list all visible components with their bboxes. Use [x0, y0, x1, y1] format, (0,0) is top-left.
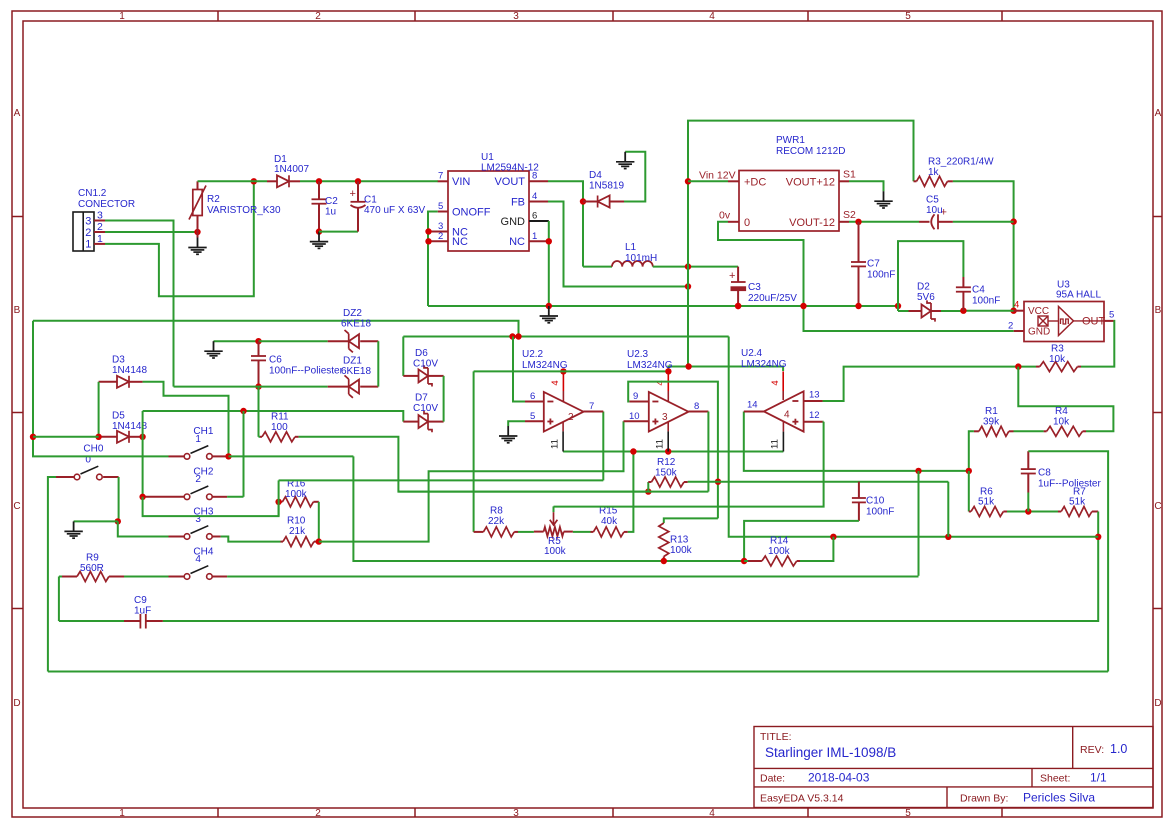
U2.3 pin 8 output stub — [689, 401, 709, 412]
wire C5 to R3 node — [953, 221, 1014, 223]
svg-text:EasyEDA V5.3.14: EasyEDA V5.3.14 — [760, 793, 844, 805]
wire CH1 to R13/R14 node — [353, 456, 744, 561]
op-amp U2.4 LM324NG — [741, 348, 804, 432]
junction — [425, 228, 431, 234]
wire R11 to U2.3 out net — [299, 437, 649, 492]
resistor R7 51k — [1058, 487, 1098, 517]
capacitor C1 — [350, 181, 426, 231]
diode D5 1N4148 — [99, 411, 148, 443]
wire U2.2 out to R16 — [279, 479, 604, 481]
svg-text:REV:: REV: — [1080, 744, 1104, 756]
PWR1 pin +DC stub — [728, 180, 739, 182]
svg-text:3: 3 — [513, 11, 519, 22]
wire R7 to C9 node — [1097, 512, 1099, 537]
svg-text:C: C — [1154, 501, 1161, 512]
op-amp U2.2 LM324NG — [522, 349, 584, 432]
U2.4 pin 11 V- — [770, 422, 784, 452]
switch CH4 — [169, 546, 228, 579]
svg-text:R3_220R1/4W: R3_220R1/4W — [928, 157, 994, 168]
svg-text:D5: D5 — [112, 411, 125, 422]
wire CH1 right run — [229, 455, 354, 457]
svg-text:Starlinger IML-1098/B: Starlinger IML-1098/B — [765, 745, 896, 760]
svg-text:Vin 12V: Vin 12V — [699, 170, 736, 182]
svg-text:C10V: C10V — [413, 359, 438, 370]
svg-text:D2: D2 — [917, 282, 930, 293]
svg-text:2: 2 — [315, 11, 321, 22]
resistor R9 560R — [59, 553, 124, 582]
svg-text:L1: L1 — [625, 242, 637, 253]
svg-text:S1: S1 — [843, 169, 856, 181]
wire node to R6 — [968, 471, 970, 512]
wire R5 wiper to U2.4 pin12 — [554, 422, 824, 507]
switch CH3 — [169, 506, 221, 539]
wire CH0 right down — [118, 477, 120, 521]
wire DZ2 to DZ1 — [377, 341, 379, 386]
svg-text:100nF: 100nF — [867, 270, 895, 281]
svg-text:2: 2 — [97, 221, 103, 233]
svg-text:0: 0 — [744, 217, 750, 229]
svg-text:D6: D6 — [415, 348, 428, 359]
varistor R2 — [189, 181, 281, 237]
resistor R3_220R1/4W 1k — [914, 157, 995, 187]
junction — [715, 479, 721, 485]
svg-text:C6: C6 — [269, 355, 282, 366]
junction — [316, 538, 322, 544]
svg-text:95A HALL: 95A HALL — [1056, 290, 1101, 301]
svg-text:CN1.2: CN1.2 — [78, 188, 107, 199]
svg-text:100k: 100k — [544, 546, 567, 557]
junction — [240, 408, 246, 414]
wire V+ rail jog to U2.4 pin4 — [668, 367, 783, 372]
wire up to U2.2 output — [602, 412, 604, 481]
svg-text:VARISTOR_K30: VARISTOR_K30 — [207, 205, 281, 216]
wire U1 GND down — [548, 221, 550, 306]
svg-text:10u: 10u — [926, 205, 943, 216]
ground symbol at U1 — [548, 306, 550, 316]
power module PWR1 RECOM 1212D — [739, 135, 845, 231]
svg-text:CH0: CH0 — [83, 444, 103, 455]
svg-text:R13: R13 — [670, 535, 689, 546]
svg-text:CONECTOR: CONECTOR — [78, 199, 135, 210]
potentiometer R5 100k — [534, 506, 573, 557]
junction — [30, 434, 36, 440]
svg-text:5: 5 — [1109, 310, 1114, 321]
wire R4 to R1 — [1014, 430, 1044, 432]
junction — [960, 308, 966, 314]
svg-text:GND: GND — [1028, 327, 1050, 338]
svg-text:1/1: 1/1 — [1090, 771, 1107, 785]
wire R2 top to D1 — [198, 180, 268, 182]
junction — [685, 363, 691, 369]
wire CN1.2 pin1 to D1 anode node — [105, 181, 254, 296]
svg-text:100: 100 — [271, 422, 288, 433]
svg-text:B: B — [14, 305, 21, 316]
svg-text:Pericles Silva: Pericles Silva — [1023, 791, 1095, 805]
wire R3 to U2.4 pin13 — [823, 367, 1036, 401]
svg-text:560R: 560R — [80, 563, 104, 574]
ground at U2.2 pin5 — [507, 426, 509, 436]
svg-text:3: 3 — [85, 216, 91, 228]
junction — [425, 238, 431, 244]
wire left vertical to CH1 — [33, 321, 169, 457]
junction — [316, 178, 322, 184]
svg-text:2: 2 — [195, 474, 201, 485]
svg-text:R2: R2 — [207, 194, 220, 205]
svg-text:2: 2 — [315, 808, 321, 819]
svg-text:1: 1 — [119, 11, 125, 22]
CN1.2 pin 1 — [94, 233, 105, 245]
junction — [855, 219, 861, 225]
svg-text:D3: D3 — [112, 355, 125, 366]
wire R8 to R5 — [518, 531, 534, 533]
svg-text:+DC: +DC — [744, 177, 766, 189]
svg-text:3: 3 — [97, 210, 103, 222]
U2.3 pin 9 stub — [629, 391, 649, 402]
svg-text:21k: 21k — [289, 526, 306, 537]
svg-text:7: 7 — [438, 171, 443, 182]
junction — [509, 333, 515, 339]
wire bottom rail — [48, 671, 1108, 673]
svg-text:B: B — [1155, 305, 1162, 316]
svg-text:1: 1 — [119, 808, 125, 819]
junction — [800, 303, 806, 309]
svg-text:D: D — [1154, 698, 1161, 709]
wire CH2 right — [227, 496, 243, 498]
svg-text:1uF--Poliester: 1uF--Poliester — [1038, 479, 1101, 490]
svg-text:LM2594N-12: LM2594N-12 — [481, 163, 539, 174]
svg-text:11: 11 — [550, 439, 561, 449]
svg-text:R1: R1 — [985, 406, 998, 417]
junction — [139, 494, 145, 500]
zener diode D2 5V6 — [898, 282, 941, 322]
diode D1 — [267, 154, 309, 187]
svg-text:DZ2: DZ2 — [343, 308, 362, 319]
junction — [580, 198, 586, 204]
zener diode D7 C10V — [403, 393, 443, 433]
junction — [895, 303, 901, 309]
resistor R13 100k — [659, 523, 693, 561]
svg-text:1k: 1k — [928, 167, 940, 178]
junction — [685, 283, 691, 289]
CN1.2 pin 3 — [94, 210, 105, 222]
U2.4 pin 12 stub — [804, 410, 823, 422]
wire CH0 left down to bottom rail — [48, 477, 56, 672]
svg-text:1.0: 1.0 — [1110, 742, 1127, 756]
wire pin12 joint — [822, 421, 825, 423]
junction — [685, 263, 691, 269]
svg-text:5: 5 — [438, 201, 443, 212]
svg-text:U2.3: U2.3 — [627, 349, 649, 360]
svg-text:1N4007: 1N4007 — [274, 164, 309, 175]
svg-text:1: 1 — [532, 231, 537, 242]
svg-text:RECOM 1212D: RECOM 1212D — [776, 146, 845, 157]
ground at S1 — [883, 191, 885, 201]
wire C6 bottom row — [174, 386, 328, 388]
junction — [355, 178, 361, 184]
zener diode D6 C10V — [403, 348, 443, 387]
wire ONOFF to ground bus — [428, 212, 438, 307]
resistor R6 51k — [969, 487, 1007, 517]
svg-text:1N4148: 1N4148 — [112, 365, 147, 376]
wire R3 node to R4 — [1018, 367, 1113, 432]
svg-text:PWR1: PWR1 — [776, 135, 805, 146]
svg-text:2: 2 — [85, 227, 91, 239]
U1 pin 6 GND — [529, 211, 549, 222]
svg-text:6: 6 — [530, 391, 535, 402]
U1 pin 3 NC — [429, 221, 449, 232]
op-amp U2.3 LM324NG — [627, 349, 689, 432]
capacitor C6 100nF Poliester — [251, 341, 344, 386]
U1 pin 1 NC — [529, 231, 549, 242]
svg-text:+: + — [729, 270, 735, 282]
U2.3 pin 10 stub — [624, 411, 649, 422]
resistor R11 100 — [259, 412, 299, 442]
svg-text:13: 13 — [809, 390, 820, 401]
U3 pin 4 VCC stub — [1014, 300, 1024, 311]
svg-text:D4: D4 — [589, 170, 602, 181]
svg-text:VOUT-12: VOUT-12 — [789, 217, 835, 229]
U3 pin 2 GND stub — [1008, 321, 1024, 332]
junction — [139, 434, 145, 440]
svg-text:U2.4: U2.4 — [741, 348, 763, 359]
U1 pin 8 VOUT — [529, 171, 548, 182]
svg-text:NC: NC — [452, 236, 468, 248]
svg-text:4: 4 — [784, 410, 790, 421]
svg-text:Drawn By:: Drawn By: — [960, 793, 1008, 805]
junction — [735, 303, 741, 309]
svg-text:C2: C2 — [325, 196, 338, 207]
svg-text:C3: C3 — [748, 282, 761, 293]
ground under C2 — [318, 232, 320, 242]
svg-text:Sheet:: Sheet: — [1040, 773, 1070, 785]
U1 pin 2 NC — [429, 231, 449, 242]
svg-text:5: 5 — [905, 11, 911, 22]
svg-text:4: 4 — [709, 808, 715, 819]
svg-text:39k: 39k — [983, 417, 1000, 428]
wire pin8 down — [707, 412, 709, 492]
wire node to D5 — [33, 436, 99, 438]
junction — [1010, 308, 1016, 314]
PWR1 pin VOUT-12 stub S2 — [839, 209, 856, 222]
resistor R14 100k — [744, 536, 800, 567]
svg-text:1uF: 1uF — [134, 606, 151, 617]
wire down to D6 — [402, 337, 404, 376]
CN1.2 pin 2 — [94, 221, 105, 233]
wire pin6 up to B net — [513, 337, 525, 402]
svg-text:10: 10 — [629, 411, 640, 422]
svg-text:VOUT+12: VOUT+12 — [786, 177, 835, 189]
junction — [115, 518, 121, 524]
wire CH2 node to R16 — [143, 497, 279, 516]
junction — [645, 488, 651, 494]
junction — [275, 499, 281, 505]
junction — [1095, 534, 1101, 540]
resistor R10 21k — [281, 516, 319, 547]
junction — [915, 468, 921, 474]
wire D1 to U1 VIN — [300, 180, 438, 182]
svg-text:A: A — [14, 108, 21, 119]
U2.2 pin 6 stub — [525, 391, 544, 402]
wire op-amp pin11 rail — [563, 451, 783, 453]
wire D2 to U3 VCC — [941, 310, 1014, 312]
resistor R3 10k — [1036, 344, 1081, 372]
wire FB to Vin divider node — [548, 202, 688, 287]
IC U1 LM2594N-12 — [448, 152, 539, 251]
svg-text:100nF: 100nF — [866, 507, 894, 518]
resistor R1 39k — [974, 406, 1014, 436]
svg-text:DZ1: DZ1 — [343, 356, 362, 367]
svg-text:1: 1 — [195, 434, 201, 445]
U2.2 pin 7 output stub — [584, 401, 604, 412]
junction — [665, 368, 671, 374]
svg-text:C10: C10 — [866, 496, 885, 507]
svg-text:C9: C9 — [134, 595, 147, 606]
diode D3 1N4148 — [99, 355, 148, 388]
junction — [685, 178, 691, 184]
svg-text:R10: R10 — [287, 516, 306, 527]
svg-text:U2.2: U2.2 — [522, 349, 544, 360]
U2.2 pin 5 stub — [525, 411, 544, 422]
svg-text:11: 11 — [770, 439, 781, 449]
wire to CH2 right — [243, 411, 245, 497]
junction — [830, 534, 836, 540]
svg-text:3: 3 — [513, 808, 519, 819]
svg-text:VIN: VIN — [452, 176, 470, 188]
svg-text:5: 5 — [905, 808, 911, 819]
diode D4 1N5819 — [583, 170, 624, 208]
U1 pin 4 FB — [529, 191, 548, 202]
svg-text:101mH: 101mH — [625, 253, 657, 264]
svg-text:4: 4 — [709, 11, 715, 22]
svg-text:10k: 10k — [1053, 417, 1070, 428]
resistor R15 40k — [591, 506, 628, 537]
wire D3 cathode to CH1 right — [143, 382, 229, 457]
wire CN1.2 pin2 to R2 ground — [105, 231, 198, 233]
wire C9 to R7 node — [163, 537, 1098, 621]
svg-text:LM324NG: LM324NG — [741, 359, 787, 370]
junction — [251, 178, 257, 184]
junction — [255, 383, 261, 389]
wire R15 to ground rail — [628, 452, 634, 532]
svg-text:51k: 51k — [1069, 497, 1086, 508]
svg-text:C1: C1 — [364, 195, 377, 206]
wire R1 to output node — [969, 431, 974, 471]
wire +12V net vertical and top run — [688, 121, 914, 367]
svg-text:D: D — [13, 698, 20, 709]
svg-text:9: 9 — [633, 391, 638, 402]
svg-text:LM324NG: LM324NG — [522, 360, 568, 371]
title block — [754, 727, 1153, 808]
svg-text:1: 1 — [85, 239, 91, 251]
junction — [546, 303, 552, 309]
svg-text:R11: R11 — [271, 412, 289, 423]
svg-text:C5: C5 — [926, 195, 939, 206]
ground at D4 — [624, 152, 626, 162]
wire C8 to R6/R7 node — [1027, 493, 1029, 512]
wire S1 to ground — [849, 181, 884, 191]
svg-text:C4: C4 — [972, 285, 985, 296]
svg-text:R12: R12 — [657, 457, 676, 468]
zener diode DZ2 6KE18 — [328, 308, 379, 352]
IC U3 95A HALL sensor — [1024, 280, 1106, 342]
wire pin9 feedback loop — [628, 382, 718, 519]
svg-text:R8: R8 — [490, 506, 503, 517]
svg-text:8: 8 — [694, 401, 699, 412]
PWR1 pin VOUT+12 stub S1 — [839, 169, 856, 182]
svg-text:14: 14 — [747, 400, 758, 411]
capacitor C9 1uF — [124, 595, 163, 629]
svg-text:C7: C7 — [867, 259, 880, 270]
wire to ground — [74, 520, 118, 522]
wire 0v to U3 GND — [718, 222, 1014, 331]
junction — [630, 448, 636, 454]
svg-text:2: 2 — [568, 412, 574, 423]
U2.2 pin 11 V- — [550, 422, 564, 452]
U2.3 pin 11 V- — [655, 422, 669, 452]
svg-text:100k: 100k — [285, 489, 308, 500]
svg-text:FB: FB — [511, 197, 525, 209]
junction — [225, 453, 231, 459]
wire +rail down to R8 — [473, 371, 475, 532]
svg-text:1: 1 — [97, 233, 103, 245]
svg-text:GND: GND — [501, 216, 526, 228]
junction — [515, 333, 521, 339]
wire C6 to R11 — [258, 387, 260, 437]
svg-text:3: 3 — [662, 412, 668, 423]
wire R12 to C10 top net — [688, 481, 949, 483]
wire D2/C4 parallel loop — [898, 241, 963, 306]
junction — [966, 468, 972, 474]
resistor R16 100k — [279, 479, 319, 507]
capacitor C4 100nF — [956, 277, 1000, 311]
wire R10 node to U2.3 pin10 — [319, 421, 624, 541]
wire pin8 net row — [398, 491, 708, 493]
svg-text:51k: 51k — [978, 497, 995, 508]
svg-text:2: 2 — [1008, 321, 1013, 332]
connector CN1.2 — [73, 188, 135, 251]
wire pin5 to ground — [508, 421, 525, 426]
svg-text:150k: 150k — [655, 468, 678, 479]
svg-text:Date:: Date: — [760, 773, 785, 785]
wire Vin to PWR1 — [688, 180, 728, 182]
svg-text:ONOFF: ONOFF — [452, 207, 491, 219]
capacitor C5 10u polarized — [919, 195, 953, 230]
svg-text:100nF: 100nF — [972, 296, 1000, 307]
wire ground to C6 top — [214, 340, 259, 342]
svg-text:LM324NG: LM324NG — [627, 360, 673, 371]
svg-text:40k: 40k — [601, 516, 618, 527]
U3 pin 5 OUT stub — [1104, 310, 1114, 321]
capacitor C10 100nF — [852, 482, 894, 521]
wire R9 to C9 — [58, 577, 60, 622]
zener diode DZ1 6KE18 — [328, 356, 379, 398]
svg-text:6: 6 — [532, 211, 537, 222]
wire CH3 to R10 — [221, 537, 281, 542]
wire pin13 joint — [823, 400, 844, 402]
junction — [1015, 363, 1021, 369]
U1 pin 7 VIN — [438, 171, 448, 182]
junction — [95, 434, 101, 440]
wire to CH3 — [118, 521, 169, 536]
U2.3 pin 4 V+ — [655, 371, 668, 401]
resistor R8 22k — [474, 506, 518, 537]
wire L1 to C3 — [653, 266, 738, 268]
svg-text:VOUT: VOUT — [494, 176, 525, 188]
wire D4 anode to ground — [624, 152, 645, 202]
U2.4 pin 4 V+ — [770, 371, 783, 400]
svg-text:4: 4 — [550, 380, 561, 385]
svg-text:R14: R14 — [770, 536, 789, 547]
